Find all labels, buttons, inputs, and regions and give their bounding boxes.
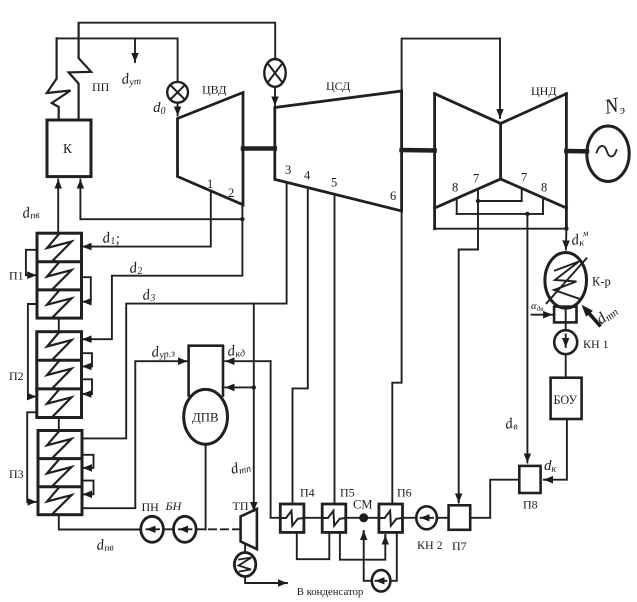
shaft CND-generator bbox=[566, 149, 587, 154]
makeup water alpha_dv arrow bbox=[532, 314, 553, 316]
wire PN-BN bbox=[163, 528, 173, 530]
svg-text:d2: d2 bbox=[129, 260, 143, 278]
svg-text:6: 6 bbox=[390, 189, 396, 203]
generator N_e bbox=[587, 126, 629, 181]
svg-text:П8: П8 bbox=[523, 498, 538, 512]
turbine CND double flow bbox=[435, 94, 567, 229]
wire feedwater P2-P3 bbox=[58, 418, 60, 431]
wire cooler to condenser bbox=[245, 577, 286, 584]
drain P6 to pump bbox=[390, 532, 396, 580]
superheater PP zigzag band bbox=[47, 38, 71, 119]
svg-text:П1: П1 bbox=[9, 269, 24, 283]
svg-text:ПП: ПП bbox=[92, 80, 110, 94]
svg-text:ЦНД: ЦНД bbox=[531, 84, 557, 98]
svg-text:СМ: СМ bbox=[353, 498, 372, 512]
svg-text:2: 2 bbox=[228, 186, 234, 200]
heater P2 bbox=[37, 332, 82, 418]
drain P4 to P5 bbox=[297, 532, 330, 559]
wire P8 to main condensate line bbox=[470, 480, 519, 518]
wire main condensate to deaerator bbox=[271, 361, 281, 518]
wire CND exhaust to condenser bbox=[565, 229, 568, 250]
P2 right tabs bbox=[82, 353, 93, 366]
svg-text:П7: П7 bbox=[452, 539, 467, 553]
shaft TP to pumps (dashed) bbox=[209, 528, 240, 530]
TP cooler bbox=[234, 553, 255, 577]
wire drain pump to SM bbox=[364, 532, 372, 581]
heater P7 bbox=[449, 505, 471, 530]
extraction 3 line (alpha_3) bbox=[82, 182, 286, 438]
turbine CVD bbox=[178, 93, 244, 205]
wire extraction 7 to P7 bbox=[459, 201, 478, 502]
wire extraction 8 to P8 (alpha_v) bbox=[526, 214, 528, 463]
deaerator DPV bbox=[189, 346, 223, 396]
svg-text:5: 5 bbox=[331, 176, 337, 190]
P1 right loop bbox=[82, 277, 91, 302]
extraction 8 header under CND bbox=[456, 198, 458, 214]
stop valve CVD bbox=[167, 82, 188, 103]
svg-text:ПН: ПН bbox=[142, 500, 160, 514]
wire BOU to P8 (alpha_k) bbox=[545, 419, 567, 480]
svg-text:П4: П4 bbox=[300, 486, 315, 500]
svg-text:К: К bbox=[63, 141, 73, 156]
svg-text:8: 8 bbox=[452, 181, 458, 195]
extraction 2 line to P2 (alpha_2) bbox=[85, 205, 243, 339]
heater P8 bbox=[519, 466, 540, 493]
wire cold reheat into boiler bbox=[79, 180, 81, 220]
node SM mixer bbox=[359, 513, 368, 522]
deaerator DPV downpipe bbox=[205, 444, 207, 529]
drain P2 to P3 left line bbox=[27, 412, 37, 502]
svg-text:БОУ: БОУ bbox=[554, 393, 578, 407]
turbine CSD bbox=[275, 91, 402, 211]
svg-text:КН 1: КН 1 bbox=[583, 337, 609, 351]
intercept valve CSD bbox=[264, 59, 285, 87]
turbine drive TP bbox=[241, 509, 257, 549]
svg-text:7: 7 bbox=[473, 172, 479, 186]
svg-text:dкд: dкд bbox=[227, 342, 246, 361]
wire valve to CSD inlet bbox=[274, 87, 276, 106]
svg-text:dк: dк bbox=[544, 458, 557, 475]
extraction 4 line to P4 bbox=[293, 188, 308, 504]
wire hotwell to KN1 bbox=[565, 322, 567, 330]
drain P5 to P6 bbox=[340, 532, 385, 559]
svg-text:d0: d0 bbox=[153, 100, 166, 117]
node extraction 8 bbox=[525, 212, 529, 216]
wire main condensate P5-P6 with SM node bbox=[346, 517, 379, 519]
svg-text:7: 7 bbox=[521, 171, 527, 185]
extraction 1 line to P1 (alpha_1) bbox=[85, 192, 211, 247]
shaft CSD-CND bbox=[402, 148, 435, 153]
pump BN bbox=[174, 516, 197, 542]
heater P6 bbox=[379, 504, 403, 532]
svg-text:П2: П2 bbox=[9, 369, 24, 383]
svg-text:ТП: ТП bbox=[233, 499, 249, 513]
P3 right tabs bbox=[82, 455, 94, 468]
svg-text:dур.з: dур.з bbox=[151, 342, 176, 362]
wire cold reheat horizontal bbox=[80, 218, 242, 220]
svg-text:4: 4 bbox=[304, 169, 311, 183]
svg-text:БН: БН bbox=[165, 499, 183, 513]
demineralizer BOU bbox=[551, 378, 582, 419]
pump KN2 bbox=[416, 506, 437, 529]
wire KN1 to BOU bbox=[565, 354, 567, 378]
condenser hotwell bbox=[554, 307, 576, 323]
heater P5 bbox=[322, 504, 346, 532]
svg-text:КН 2: КН 2 bbox=[417, 538, 443, 552]
svg-text:ЦСД: ЦСД bbox=[326, 79, 350, 93]
extraction 5 line to P5 bbox=[334, 194, 336, 504]
P1 left loop bbox=[26, 250, 37, 275]
svg-text:d3: d3 bbox=[142, 287, 156, 305]
wire fresh steam line to CVD valve bbox=[57, 38, 178, 82]
wire hot-reheat top line to CSD valve bbox=[79, 23, 276, 60]
shaft CVD-CSD bbox=[243, 146, 275, 151]
svg-text:dкм: dкм bbox=[570, 228, 591, 250]
wire tee into deaerator lower bbox=[225, 386, 254, 388]
node TP steam tee bbox=[252, 385, 256, 389]
svg-text:ЦВД: ЦВД bbox=[202, 83, 226, 97]
heater P3 bbox=[38, 431, 82, 515]
wire alpha_kd/TP steam vertical bbox=[253, 304, 255, 511]
wire BN to deaerator downpipe bbox=[196, 528, 206, 530]
node extraction 7 bbox=[476, 199, 480, 203]
wire feedwater P1-P2 bbox=[58, 318, 60, 332]
heater P4 bbox=[280, 504, 304, 532]
drain P1 to P2 left line bbox=[28, 304, 37, 397]
svg-text:8: 8 bbox=[541, 181, 547, 195]
alpha_ur.z line into deaerator bbox=[135, 360, 187, 362]
heater P1 bbox=[37, 233, 82, 318]
condenser K-r bbox=[545, 252, 587, 308]
pump PN bbox=[141, 516, 164, 542]
svg-text:В конденсатор: В конденсатор bbox=[297, 586, 364, 598]
svg-text:dут: dут bbox=[121, 70, 142, 89]
wire CND exhaust hood bottom bbox=[435, 228, 567, 230]
node cold reheat tee bbox=[240, 217, 244, 221]
wire feedwater into boiler bbox=[57, 180, 59, 234]
svg-text:dтп: dтп bbox=[229, 458, 252, 479]
svg-text:ДПВ: ДПВ bbox=[192, 411, 219, 425]
svg-text:d1;: d1; bbox=[102, 229, 122, 249]
svg-text:П3: П3 bbox=[9, 467, 24, 481]
svg-text:1: 1 bbox=[207, 177, 213, 191]
alpha_kd line into deaerator bbox=[225, 360, 270, 362]
crossover pipe CSD to CND bbox=[402, 39, 500, 91]
drain pump bbox=[372, 570, 391, 591]
wire P3 shell to deaerator (seal steam collector) bbox=[82, 362, 135, 509]
alpha_ut arrow bbox=[134, 38, 136, 62]
wire main condensate P4-P5 bbox=[304, 517, 322, 519]
extraction 6 line to P6 bbox=[392, 211, 401, 504]
svg-text:Nэ: Nэ bbox=[601, 91, 626, 120]
svg-text:dпв: dпв bbox=[21, 204, 41, 223]
wire feedwater P3 down to pumps bbox=[59, 515, 141, 530]
wire KN2 to P7 bbox=[437, 517, 449, 519]
alpha_tp return thick arrow bbox=[582, 305, 602, 328]
svg-text:К-р: К-р bbox=[592, 275, 611, 289]
svg-text:αдв: αдв bbox=[531, 301, 544, 313]
extraction 7 header under CND bbox=[477, 189, 479, 201]
svg-text:3: 3 bbox=[285, 163, 291, 177]
svg-text:dв: dв bbox=[504, 415, 519, 434]
boiler K bbox=[47, 120, 91, 177]
wire P6 to KN2 bbox=[403, 517, 417, 519]
svg-text:dпв: dпв bbox=[96, 536, 115, 555]
svg-text:П6: П6 bbox=[397, 486, 412, 500]
pump KN1 bbox=[554, 330, 577, 354]
wire TP exhaust to cooler bbox=[244, 544, 246, 553]
wire valve to CVD inlet bbox=[177, 103, 179, 116]
node condenser inlet bbox=[564, 227, 568, 231]
